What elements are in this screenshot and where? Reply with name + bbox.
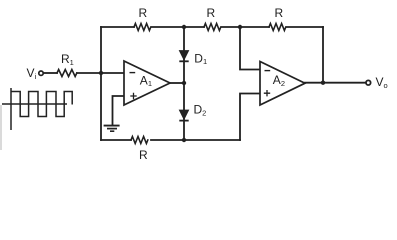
input square-wave symbol axes [2, 88, 72, 130]
diode D2 [179, 110, 188, 121]
wire: top feedback bus y=27 [101, 26, 323, 28]
input square-wave trace [11, 92, 72, 117]
node: A1 output / diode junction [182, 81, 186, 85]
wire: A1 output to diode node [170, 82, 184, 84]
svg-text:D1: D1 [194, 51, 207, 66]
resistor R (top right) [269, 24, 286, 31]
svg-text:R: R [275, 6, 284, 20]
wire: A1 noninverting input to ground [113, 96, 125, 125]
wire: right vertical from top bus to output node [322, 27, 324, 83]
scan artifact left edge [0, 105, 2, 150]
terminal Vo [366, 80, 371, 85]
node: A1 inverting input junction [99, 71, 103, 75]
diode D1 [179, 51, 188, 62]
svg-text:D2: D2 [194, 103, 207, 118]
wire: bottom bus to A2 noninverting input [240, 94, 260, 141]
svg-text:Vi: Vi [27, 66, 37, 81]
node: bottom bus / D2 junction [182, 138, 186, 142]
wire: diode chain vertical x=184 [183, 27, 185, 140]
wire: bottom bus y=140 [101, 139, 240, 141]
svg-text:R1: R1 [61, 52, 74, 67]
wire: top bus junction to A2 inverting input [240, 27, 260, 70]
wire: left vertical from top bus to bottom bus [100, 27, 102, 140]
wire: input from Vi terminal to R1 [44, 72, 58, 74]
node: output junction [321, 81, 325, 85]
svg-text:Vo: Vo [376, 75, 388, 90]
svg-text:R: R [139, 6, 148, 20]
svg-text:R: R [207, 6, 216, 20]
resistor R (top middle) [204, 24, 221, 31]
resistor R1 (input) [57, 70, 77, 77]
wire: A2 output to Vo terminal [305, 82, 366, 84]
op-amp A1 [124, 61, 170, 105]
wire: R1 to A1 inverting input [77, 72, 124, 74]
op-amp A2 [260, 62, 305, 106]
resistor R (bottom) [131, 137, 148, 144]
terminal Vi [39, 71, 43, 75]
ground [104, 126, 120, 132]
resistor R (top left) [134, 24, 151, 31]
node: top bus / A2 inverting junction [238, 25, 242, 29]
node: top bus / D1 junction [182, 25, 186, 29]
svg-text:R: R [139, 148, 148, 162]
